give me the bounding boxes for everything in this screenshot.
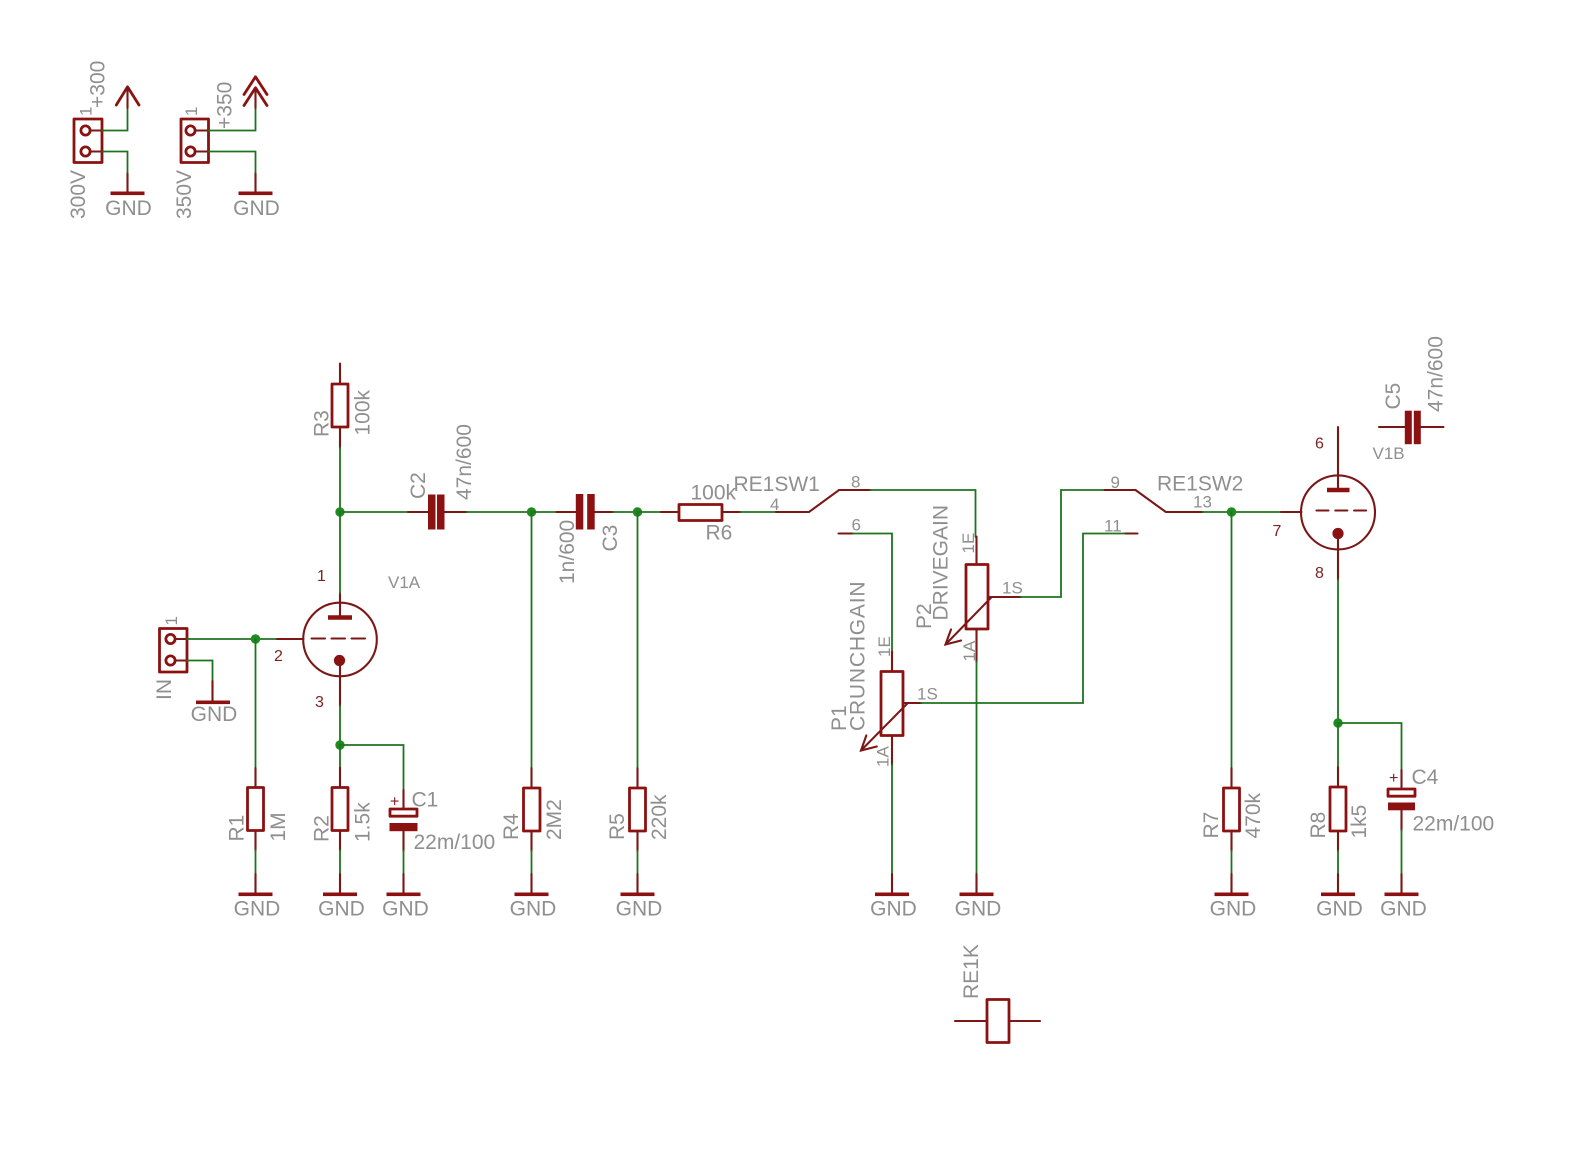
wire node down to R4 [531,512,533,769]
wire 300V pin1 to +300 [102,108,128,131]
triode V1A [274,568,421,711]
wire IN pin2 to GND [187,661,213,682]
ground GND (R8) [1316,874,1363,920]
capacitor C2 [407,424,476,529]
svg-text:C2: C2 [407,472,430,499]
svg-text:100k: 100k [352,389,375,435]
wire node to R6 [638,511,662,513]
svg-text:RE1SW1: RE1SW1 [734,473,820,496]
ground GND (IN) [191,681,238,726]
ground GND (R7) [1210,874,1257,920]
wire P2 wiper to SW2 pin9 [1021,490,1106,597]
svg-text:GND: GND [191,703,238,726]
resistor R8 [1307,767,1371,851]
svg-text:C5: C5 [1382,383,1405,410]
resistor R7 [1200,768,1265,851]
ground GND (C4) [1380,874,1427,920]
svg-text:22m/100: 22m/100 [1413,813,1495,836]
svg-text:11: 11 [1104,517,1122,536]
svg-text:1M: 1M [267,812,290,841]
capacitor C4 electrolytic [1388,766,1494,836]
wire node down to R2 [339,745,341,768]
svg-text:R4: R4 [500,813,523,840]
wire node down to R7 [1231,512,1233,769]
svg-text:9: 9 [1111,473,1120,492]
svg-text:GND: GND [318,897,365,920]
wire R3 to plate node [339,448,341,513]
wire node to C1 [340,745,404,791]
potentiometer P1 CRUNCHGAIN [828,581,938,767]
svg-text:GND: GND [234,897,281,920]
connector IN [153,616,188,700]
svg-text:R1: R1 [226,815,249,842]
wire node to C4 [1338,723,1402,771]
svg-text:1: 1 [162,616,181,625]
node plate junction [335,507,344,516]
svg-text:1n/600: 1n/600 [556,520,579,584]
svg-text:R8: R8 [1307,812,1330,839]
resistor R4 [500,768,566,851]
wire C2 to node [467,511,532,513]
ground GND (R1) [234,874,281,920]
wire R2 to GND [339,850,341,875]
ground GND (C1) [382,874,429,920]
wire P2 bottom to GND [976,662,978,875]
connector 300V [67,107,103,219]
wire plate node to C2 [340,511,409,513]
wire C1 to GND [403,851,405,875]
svg-text:IN: IN [153,679,176,700]
svg-text:3: 3 [315,694,324,711]
triode V1B [1273,427,1405,582]
wire plate node to V1A anode [339,512,341,594]
svg-text:GND: GND [1380,897,1427,920]
svg-text:GND: GND [955,897,1002,920]
svg-text:1k5: 1k5 [1348,805,1371,839]
svg-text:GND: GND [616,897,663,920]
node grid junction [251,634,260,643]
wire C4 to GND [1401,830,1403,875]
wire R1 to GND [255,850,257,875]
svg-text:350V: 350V [173,170,196,219]
power +300 [87,61,140,108]
svg-text:C1: C1 [412,789,439,812]
svg-text:4: 4 [770,495,779,514]
node C3/R5 junction [633,507,642,516]
svg-text:C4: C4 [1412,766,1439,789]
svg-text:+300: +300 [87,61,110,108]
wire node to C3 [532,511,558,513]
ground GND (350V) [233,174,280,221]
svg-text:GND: GND [382,897,429,920]
resistor R2 [311,768,375,851]
wire R7 to GND [1231,851,1233,875]
svg-text:220k: 220k [648,794,671,840]
svg-text:8: 8 [1315,565,1324,582]
svg-text:2M2: 2M2 [543,799,566,840]
svg-text:GND: GND [510,897,557,920]
svg-text:V1B: V1B [1373,444,1405,463]
capacitor C5 [1379,336,1448,444]
svg-text:300V: 300V [67,170,90,219]
wire 300V pin2 to GND [102,152,128,174]
ground GND (300V) [105,174,152,221]
wire V1B cathode down [1337,580,1339,724]
svg-text:GND: GND [1210,897,1257,920]
ground GND (R5) [616,874,663,920]
wire R8 to GND [1337,851,1339,875]
svg-text:+: + [390,794,399,811]
ground GND (P1) [870,874,917,920]
ground GND (R4) [510,874,557,920]
relay coil RE1K [955,944,1040,1042]
wire IN pin1 to grid node [187,638,278,640]
power +350 [214,77,268,129]
svg-text:+: + [1389,770,1398,787]
svg-text:1E: 1E [875,636,894,657]
node cathode junction V1A [335,740,344,749]
relay switch RE1SW1 [734,473,871,535]
svg-text:DRIVEGAIN: DRIVEGAIN [930,505,953,621]
svg-text:R5: R5 [606,813,629,840]
node SW2/R7 junction [1227,507,1236,516]
relay switch RE1SW2 [1104,473,1243,536]
node C2/R4 junction [527,507,536,516]
svg-text:R7: R7 [1200,812,1223,839]
svg-text:2: 2 [274,648,283,665]
svg-text:R2: R2 [311,815,334,842]
ground GND (P2) [955,874,1002,920]
wire V1A cathode to R2 node [339,706,341,746]
svg-text:C3: C3 [599,525,622,552]
svg-text:1: 1 [317,568,326,585]
wire R5 to GND [637,851,639,875]
wire SW1 pin6 to P1 top [853,534,892,653]
wire 350V pin2 to GND [209,152,256,174]
svg-text:GND: GND [870,897,917,920]
svg-text:CRUNCHGAIN: CRUNCHGAIN [847,581,870,731]
connector 350V [173,107,209,219]
svg-text:+350: +350 [214,82,237,129]
wire node down to R5 [637,512,639,769]
wire C3 to node [613,511,638,513]
svg-text:8: 8 [851,473,860,492]
wire P1 wiper to SW2 pin11 [921,534,1126,704]
svg-text:GND: GND [233,197,280,220]
svg-text:1E: 1E [959,533,978,554]
svg-text:6: 6 [1315,436,1324,453]
wire SW2 common to V1B grid [1203,511,1283,513]
resistor R1 [226,768,291,851]
potentiometer P2 DRIVEGAIN [913,505,1023,662]
svg-text:47n/600: 47n/600 [1425,336,1448,412]
wire SW1 pin8 to P2 top [870,490,976,537]
wire P1 bottom to GND [891,765,893,875]
capacitor C1 electrolytic [390,789,496,855]
resistor R5 [606,768,671,851]
svg-text:1: 1 [182,107,201,116]
svg-text:22m/100: 22m/100 [414,831,496,854]
ground GND (R2) [318,874,365,920]
svg-text:1.5k: 1.5k [352,802,375,842]
svg-text:R6: R6 [706,522,733,545]
svg-text:R3: R3 [311,410,334,437]
svg-text:47n/600: 47n/600 [453,424,476,500]
svg-text:1S: 1S [917,685,938,704]
wire grid node down to R1 [255,639,257,769]
wire R6 to RE1SW1 [740,511,777,513]
svg-text:6: 6 [852,516,861,535]
svg-text:1S: 1S [1002,579,1023,598]
resistor R6 [661,481,741,544]
capacitor C3 [556,494,622,584]
svg-text:GND: GND [1316,897,1363,920]
svg-text:RE1K: RE1K [960,944,983,999]
svg-text:GND: GND [105,197,152,220]
wire 350V pin1 to +350 [209,108,256,131]
svg-text:7: 7 [1273,523,1282,540]
wire R4 to GND [531,851,533,875]
svg-text:470k: 470k [1242,792,1265,838]
svg-text:1A: 1A [874,746,893,767]
wire node down to R8 [1337,723,1339,768]
svg-text:RE1SW2: RE1SW2 [1157,473,1243,496]
svg-text:100k: 100k [691,481,737,504]
resistor R3 [311,364,375,449]
node cathode junction [1333,718,1342,727]
svg-text:1A: 1A [960,640,979,661]
svg-text:V1A: V1A [388,573,421,592]
